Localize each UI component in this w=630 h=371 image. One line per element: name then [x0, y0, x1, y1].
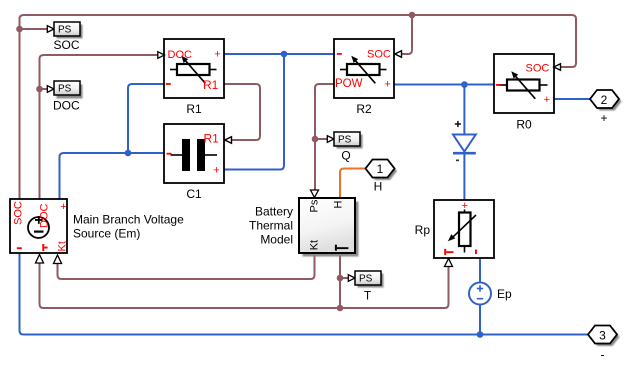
- svg-text:PS: PS: [58, 25, 72, 36]
- svg-text:Thermal: Thermal: [249, 219, 293, 233]
- svg-text:+: +: [60, 201, 66, 213]
- arrow into R0 SOC: [554, 64, 561, 71]
- PS tag SOC: [47, 22, 82, 52]
- capacitor C1: [164, 124, 224, 201]
- node DOC junction: [36, 86, 43, 93]
- source Ep (blue): [469, 283, 512, 305]
- wire blue R2+ to R0-: [394, 84, 494, 86]
- svg-text:R1: R1: [186, 102, 202, 116]
- svg-text:Model: Model: [260, 233, 293, 247]
- wire blue branch down through diode to Rp+: [463, 85, 465, 201]
- wire blue R1+ to R2-: [224, 53, 334, 55]
- svg-text:Q: Q: [341, 149, 350, 163]
- node T junction at horizontal: [337, 305, 344, 312]
- svg-text:+: +: [544, 94, 550, 106]
- arrow into C1 R1: [225, 137, 232, 144]
- PS tag T: [348, 271, 383, 303]
- svg-text:R2: R2: [356, 102, 372, 116]
- svg-text:H: H: [333, 201, 345, 209]
- arrow into Em Kt: [54, 255, 62, 264]
- wire SOC branch to PS tag: [20, 28, 48, 30]
- wire Battery Kt to Em Kt: [58, 253, 315, 279]
- svg-text:+: +: [214, 49, 220, 61]
- svg-text:+: +: [600, 111, 607, 125]
- svg-text:Rp: Rp: [415, 223, 431, 237]
- svg-text:SOC: SOC: [13, 201, 25, 225]
- svg-text:SOC: SOC: [367, 49, 391, 61]
- svg-text:Ps: Ps: [308, 199, 320, 212]
- wire blue R0+ to port 2: [553, 98, 590, 100]
- svg-text:POW: POW: [335, 78, 363, 90]
- svg-text:SOC: SOC: [526, 63, 550, 75]
- svg-text:DOC: DOC: [53, 99, 80, 113]
- PS tag Q: [327, 132, 362, 163]
- svg-text:Source (Em): Source (Em): [73, 227, 140, 241]
- resistor R1: [164, 39, 224, 116]
- arrow into R2 SOC: [395, 51, 402, 58]
- svg-text:PS: PS: [58, 84, 72, 95]
- svg-text:C1: C1: [186, 187, 202, 201]
- port 2 hexagon: [590, 90, 622, 125]
- svg-text:Main Branch Voltage: Main Branch Voltage: [73, 213, 184, 227]
- wire blue branch to R1-: [128, 84, 164, 153]
- svg-text:H: H: [374, 180, 383, 194]
- svg-text:+: +: [384, 79, 390, 91]
- wire orange port1 H to Battery H: [340, 169, 366, 199]
- svg-text:SOC: SOC: [53, 38, 79, 52]
- node blue junction diode branch: [461, 81, 468, 88]
- svg-text:PS: PS: [338, 135, 352, 146]
- svg-text:+: +: [213, 165, 219, 177]
- svg-text:R0: R0: [516, 118, 532, 132]
- subsystem Battery Thermal Model: [249, 198, 359, 257]
- node SOC junction on top rail: [409, 12, 416, 19]
- node POW junction: [312, 136, 319, 143]
- wire blue Rp- to Ep: [479, 258, 481, 283]
- svg-text:1: 1: [377, 162, 384, 176]
- svg-text:Kt: Kt: [308, 240, 320, 250]
- wire blue branch down to C1+: [224, 54, 284, 170]
- arrow into Rp T: [445, 259, 453, 267]
- wire SOC branch down to R2: [402, 15, 413, 54]
- port 1 hexagon: [366, 160, 398, 194]
- svg-text:3: 3: [599, 328, 606, 342]
- svg-text:T: T: [364, 289, 372, 303]
- PS tag DOC: [47, 81, 82, 113]
- wire T branch to PS T tag: [340, 277, 349, 279]
- arrow into Em T: [36, 255, 44, 264]
- wire DOC net (Em DOC up, right to R1 DOC): [40, 55, 159, 199]
- svg-text:R1: R1: [203, 78, 219, 92]
- wire R1 output to C1 R1 input: [224, 84, 260, 140]
- svg-text:DOC: DOC: [39, 204, 51, 229]
- wire blue bottom rail Em- to port 3: [20, 253, 589, 335]
- svg-text:R1: R1: [204, 132, 220, 146]
- svg-text:Kt: Kt: [57, 241, 69, 251]
- node blue junction R1+/C1+: [281, 51, 288, 58]
- wire blue Em+ to C1-: [60, 153, 165, 199]
- resistor R2: [334, 39, 394, 116]
- svg-text:-: -: [601, 348, 605, 362]
- svg-text:PS: PS: [359, 274, 373, 285]
- wire blue Ep to bottom rail: [479, 305, 481, 335]
- port 3 hexagon: [588, 326, 620, 362]
- svg-text:Ep: Ep: [497, 287, 512, 301]
- node SOC junction at PS branch: [16, 26, 23, 33]
- resistor Rp: [415, 200, 494, 258]
- node T junction at PS branch: [337, 275, 344, 282]
- node blue junction C1-/R1-: [125, 150, 132, 157]
- resistor R0: [494, 54, 554, 132]
- wire R2 POW down to Battery Ps: [315, 84, 334, 190]
- arrow into Battery Ps: [311, 190, 319, 198]
- svg-text:Battery: Battery: [255, 205, 293, 219]
- wire DOC branch to PS tag: [40, 88, 48, 90]
- arrow into R1 DOC: [158, 52, 165, 59]
- wire SOC net main (Em SOC up, top rail, down to R0 SOC): [20, 15, 577, 199]
- node blue junction on bottom rail: [477, 331, 484, 338]
- voltage source Em block: [10, 199, 184, 253]
- wire T horizontal to Em T and up to Rp T: [40, 264, 449, 309]
- wire Battery T down: [339, 253, 341, 308]
- svg-text:DOC: DOC: [168, 49, 193, 61]
- diode D (blue): [453, 121, 476, 161]
- svg-text:2: 2: [601, 93, 608, 107]
- wire POW branch to PS Q tag: [315, 138, 328, 140]
